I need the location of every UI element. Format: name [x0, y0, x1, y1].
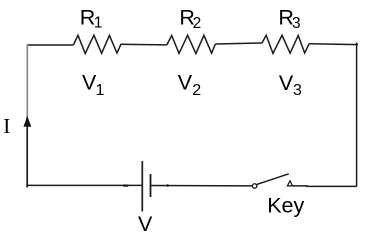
wire between R2 and R3 — [215, 43, 262, 44]
switch contact triangle — [287, 181, 292, 186]
label R3 — [278, 6, 300, 32]
resistor R1 — [73, 35, 121, 53]
svg-text:3: 3 — [292, 15, 301, 32]
wire bottom-right horizontal — [293, 185, 357, 188]
svg-text:2: 2 — [192, 82, 201, 99]
svg-text:Key: Key — [267, 194, 304, 218]
svg-text:1: 1 — [96, 82, 105, 99]
label V3 — [279, 71, 302, 99]
label V1 — [82, 71, 105, 99]
wire top-left horizontal — [27, 44, 73, 46]
svg-text:2: 2 — [193, 15, 202, 32]
label R1 — [80, 6, 103, 32]
label R2 — [179, 6, 201, 32]
wire bottom-middle horizontal — [151, 185, 253, 187]
label V2 — [178, 71, 202, 99]
wire right vertical — [356, 43, 358, 187]
wire left vertical lower — [26, 117, 28, 188]
wire bottom-left horizontal — [27, 184, 143, 186]
wire between R1 and R2 — [121, 43, 167, 46]
resistor R3 — [262, 35, 309, 53]
resistor R2 — [167, 35, 216, 53]
svg-text:I: I — [3, 114, 10, 138]
svg-text:V: V — [279, 71, 294, 95]
junction tick on bottom-left wire — [123, 185, 128, 187]
svg-text:V: V — [178, 71, 193, 95]
battery short plate (negative) — [150, 174, 152, 197]
current arrow I — [24, 117, 31, 126]
junction dot right of battery — [166, 184, 169, 187]
battery long plate (positive) — [141, 161, 143, 211]
svg-text:1: 1 — [94, 15, 103, 32]
svg-text:V: V — [138, 212, 153, 235]
switch pivot circle — [252, 184, 256, 188]
svg-text:3: 3 — [293, 82, 302, 99]
switch lever — [257, 174, 289, 185]
wire left vertical upper — [26, 44, 28, 117]
wire top-right horizontal — [309, 43, 358, 46]
